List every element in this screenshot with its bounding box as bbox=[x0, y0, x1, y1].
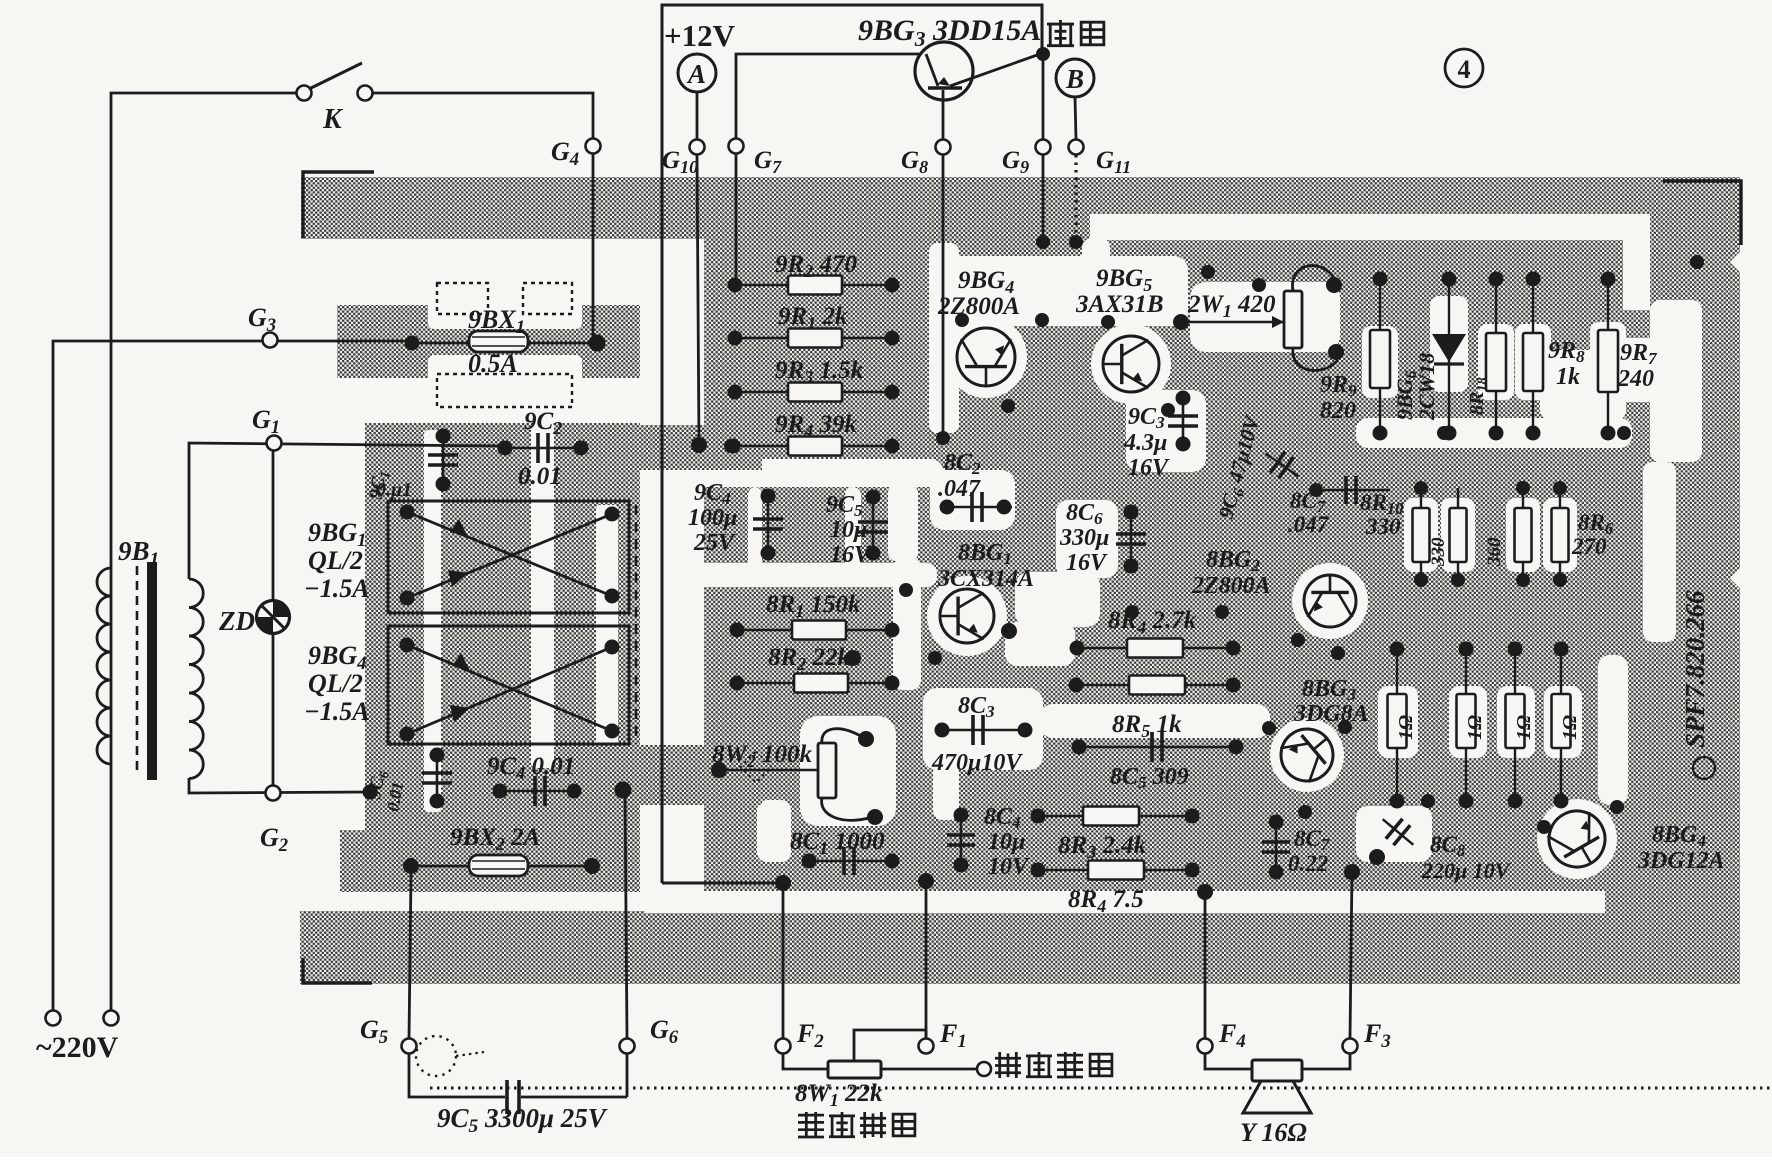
svg-text:2Z800A: 2Z800A bbox=[937, 293, 1020, 320]
label G9 bbox=[1002, 147, 1029, 177]
capacitor 8C6 330u bbox=[1116, 505, 1146, 574]
transistor 8BG4 3DG12A bbox=[1537, 800, 1624, 877]
scattered copper pads bbox=[692, 235, 1704, 819]
resistor 8R11 bbox=[1413, 481, 1430, 587]
copper region central mass bbox=[700, 239, 1740, 905]
svg-text:9BX2 2A: 9BX2 2A bbox=[450, 824, 540, 854]
terminal G6 bbox=[620, 1039, 635, 1054]
label 0.5A bbox=[468, 349, 518, 378]
svg-text:−1.5A: −1.5A bbox=[304, 697, 370, 726]
wire ZD vertical bbox=[272, 451, 275, 785]
label 8R5 1k bbox=[1112, 711, 1182, 741]
copper bridge left channel lower bbox=[630, 745, 762, 805]
terminal G8 bbox=[936, 140, 951, 155]
label F2 bbox=[796, 1019, 824, 1052]
node pad F4 riser bbox=[1197, 884, 1213, 900]
label 8BG2 2Z800A bbox=[1191, 547, 1271, 599]
label 9C2 value bbox=[518, 463, 562, 490]
figure number circled 4 bbox=[1445, 49, 1483, 87]
capacitor 8C5 row 8R5 bbox=[1072, 732, 1244, 762]
label 8C6 330u 16V bbox=[1059, 500, 1109, 576]
label F1 bbox=[939, 1019, 967, 1052]
svg-text:25V: 25V bbox=[693, 530, 736, 556]
label ZD bbox=[218, 606, 255, 636]
label 8W2 100k bbox=[712, 741, 812, 771]
wire G5 to 9C5 bbox=[409, 1054, 505, 1097]
svg-text:8W2 100k: 8W2 100k bbox=[712, 741, 812, 771]
capacitor 9C6 47u rotated bbox=[1258, 443, 1306, 487]
capacitor 8C2 .047 bbox=[940, 492, 1013, 522]
wire switch to G4 to fuse bbox=[373, 93, 593, 343]
resistor 8R16 1ohm bbox=[1457, 642, 1476, 809]
white channels bbox=[424, 214, 1752, 913]
switch K bbox=[297, 63, 373, 101]
transistor 8BG1 3CX314A bbox=[845, 589, 1017, 666]
label 8R2 22k bbox=[768, 644, 850, 674]
copper region top band bbox=[301, 177, 1740, 239]
label G11 bbox=[1096, 147, 1131, 177]
svg-text:1Ω: 1Ω bbox=[1464, 715, 1486, 740]
terminal FM input bbox=[977, 1062, 991, 1076]
svg-text:.047: .047 bbox=[938, 476, 981, 502]
svg-text:9C4 0.01: 9C4 0.01 bbox=[487, 753, 575, 783]
label 2W1 420 bbox=[1187, 291, 1276, 321]
resistor 9R3 bbox=[728, 383, 900, 402]
svg-text:4.3μ: 4.3μ bbox=[1123, 430, 1167, 456]
node junction ground rail bbox=[1036, 47, 1050, 61]
resistor 8R8b bbox=[1523, 272, 1543, 441]
wire G11 down bbox=[1074, 155, 1077, 242]
label 9R7 240 bbox=[1617, 340, 1658, 392]
relay 9BG1 box bbox=[388, 501, 629, 613]
label 8C5 309 bbox=[1110, 764, 1189, 792]
svg-text:0.22: 0.22 bbox=[1288, 851, 1328, 876]
capacitor 8C4 10u bbox=[947, 808, 975, 873]
capacitor 8C9 220u rotated bbox=[1369, 809, 1422, 865]
svg-text:A: A bbox=[686, 59, 706, 89]
label 8C3 value bbox=[931, 750, 1023, 776]
wire secondary top to G1 bbox=[189, 443, 500, 579]
wire G6 up to copper bbox=[625, 790, 627, 1038]
label 8BG3 3DG8A bbox=[1293, 676, 1369, 727]
label 9C2 bbox=[524, 408, 562, 438]
terminal F2 bbox=[776, 1039, 791, 1054]
svg-text:9R2 470: 9R2 470 bbox=[775, 251, 857, 281]
label 8C3 bbox=[958, 693, 995, 721]
wire G8 down bbox=[942, 155, 945, 438]
label 9BG4 2Z800A bbox=[937, 267, 1020, 320]
resistor 8R4c bbox=[1031, 861, 1200, 880]
label 9BX1 bbox=[468, 305, 525, 338]
resistor 9R9 820 bbox=[1370, 272, 1390, 441]
label 9R1 2k bbox=[778, 303, 848, 333]
resistor 9R7 240 bbox=[1598, 272, 1618, 441]
dashed outline above fuse left bbox=[437, 283, 488, 314]
label 1ohm b bbox=[1464, 715, 1486, 740]
label 9C4b 100u 25V bbox=[688, 480, 737, 556]
label 9BG6 rotated bbox=[1392, 370, 1420, 420]
terminal G11 bbox=[1069, 140, 1084, 155]
label 9C5b 10u 16V bbox=[826, 492, 872, 568]
capacitor 8C3 470u bbox=[935, 715, 1033, 745]
resistor 8R2 bbox=[730, 674, 900, 693]
label 8R4 2.7k bbox=[1108, 607, 1197, 637]
terminal G4 bbox=[586, 139, 601, 154]
transistor 9BG3 3DD15A bbox=[915, 42, 1040, 100]
label 8R8 rotated bbox=[1466, 377, 1491, 415]
terminal 220V left bbox=[46, 1011, 61, 1026]
label 9R3 1.5k bbox=[775, 357, 864, 387]
dotted circle at G5 bbox=[416, 1036, 484, 1076]
terminal F1 bbox=[919, 1039, 934, 1054]
wire F1 riser bbox=[918, 873, 934, 1038]
terminal G5 bbox=[402, 1039, 417, 1054]
dotted diamond near 8W2 bbox=[740, 751, 771, 782]
svg-text:9R3 1.5k: 9R3 1.5k bbox=[775, 357, 864, 387]
svg-text:220μ 10V: 220μ 10V bbox=[1421, 858, 1512, 883]
label 9B1 bbox=[118, 536, 159, 570]
transistor 9BG4 2Z800A bbox=[955, 313, 1049, 413]
copper bridge left channel upper bbox=[630, 425, 762, 470]
label SPF7.820.266 bbox=[1680, 590, 1710, 748]
resistor 8R1 bbox=[730, 621, 900, 640]
svg-text:10μ: 10μ bbox=[988, 829, 1025, 855]
label 9BG3 3DD15A bbox=[858, 14, 1041, 51]
svg-text:470μ10V: 470μ10V bbox=[931, 750, 1023, 776]
svg-text:Y 16Ω: Y 16Ω bbox=[1240, 1118, 1307, 1147]
capacitor 9C4 bbox=[493, 776, 632, 806]
terminal F3 bbox=[1343, 1039, 1358, 1054]
svg-text:9C5 3300μ 25V: 9C5 3300μ 25V bbox=[437, 1103, 608, 1137]
label 8C7 .047 bbox=[1288, 488, 1330, 537]
terminal G10 bbox=[690, 140, 705, 155]
label G8 bbox=[901, 147, 928, 177]
copper region relay block area bbox=[365, 423, 660, 830]
label 8R4 7.5 bbox=[1068, 886, 1144, 916]
label G5 bbox=[360, 1015, 388, 1048]
svg-text:9BG3 3DD15A: 9BG3 3DD15A bbox=[858, 14, 1041, 51]
wire G10 down bbox=[697, 155, 699, 444]
potentiometer 8W1 22k bbox=[783, 1030, 977, 1078]
meter terminal B bbox=[1056, 59, 1094, 97]
label 8C1 1000 bbox=[790, 828, 885, 858]
label 9C3 4.3u 16V bbox=[1123, 404, 1170, 481]
label G7 bbox=[754, 147, 782, 177]
svg-text:16V: 16V bbox=[1066, 550, 1108, 576]
transistor 8BG2 2Z800A bbox=[1291, 575, 1356, 647]
svg-text:+12V: +12V bbox=[664, 18, 736, 53]
label 8C2 .047 bbox=[938, 450, 981, 502]
pcb corner mark bottom-left bbox=[303, 958, 372, 983]
label 9R2 470 bbox=[775, 251, 857, 281]
label 9BG4 QL/2 -1.5A bbox=[304, 641, 370, 726]
capacitor 9C2 bbox=[498, 433, 589, 463]
svg-text:1Ω: 1Ω bbox=[1395, 715, 1417, 740]
capacitor 9C1 bbox=[428, 429, 458, 492]
label 9C3a bbox=[364, 768, 407, 812]
svg-text:B: B bbox=[1065, 64, 1084, 94]
label G1 bbox=[252, 405, 280, 438]
resistor 8R12 bbox=[1450, 488, 1467, 587]
potentiometer 2W1 420 bbox=[1173, 266, 1344, 371]
fuse 9BX1 bbox=[412, 331, 597, 352]
label 8R6 270 bbox=[1571, 510, 1614, 559]
label F3 bbox=[1363, 1019, 1391, 1052]
wire +12V rail rectangle bbox=[662, 5, 1042, 883]
label 8R12 rotated bbox=[1484, 537, 1505, 567]
label 8R11 rotated bbox=[1428, 537, 1449, 567]
label 1ohm c bbox=[1513, 715, 1535, 740]
wire 220V left to G3 bbox=[53, 341, 412, 1010]
label G2 bbox=[260, 823, 288, 856]
label 8R3 2.4k bbox=[1058, 832, 1147, 862]
svg-text:QL/2: QL/2 bbox=[308, 669, 363, 698]
lamp ZD bbox=[257, 601, 290, 634]
wire 220V right to switch bbox=[111, 93, 296, 1010]
label 9R8 1k bbox=[1548, 338, 1585, 390]
svg-text:10V: 10V bbox=[988, 854, 1030, 880]
label 8R1 150k bbox=[766, 591, 861, 621]
svg-text:8C5 309: 8C5 309 bbox=[1110, 764, 1189, 792]
dashed outline above fuse right bbox=[523, 283, 572, 314]
capacitor 9C3a bbox=[422, 748, 452, 809]
copper region bottom band bbox=[300, 911, 1740, 984]
label G4 bbox=[551, 137, 579, 170]
label 9R4 39k bbox=[775, 411, 857, 441]
capacitor 9C3 4.3u bbox=[1168, 391, 1198, 452]
fuse 9BX2 bbox=[403, 855, 600, 876]
label G3 bbox=[248, 303, 276, 336]
relay 9BG4 box bbox=[388, 626, 629, 744]
node pad extra row bbox=[1421, 794, 1435, 808]
label volume 音量调节 bbox=[798, 1112, 915, 1138]
relay 9BG1 cross diodes bbox=[400, 505, 620, 606]
wire 9C5 to G6 bbox=[626, 1054, 629, 1097]
resistor 9R4 bbox=[691, 437, 900, 456]
svg-text:1Ω: 1Ω bbox=[1559, 715, 1581, 740]
label 8BG4 3DG12A bbox=[1637, 822, 1725, 874]
svg-text:1k: 1k bbox=[1556, 364, 1580, 390]
svg-text:360: 360 bbox=[1484, 537, 1505, 567]
terminal F4 bbox=[1198, 1039, 1213, 1054]
wire G7 riser bbox=[736, 54, 926, 285]
label ground 接地 bbox=[1047, 20, 1104, 47]
svg-text:330: 330 bbox=[1365, 514, 1401, 539]
svg-text:1Ω: 1Ω bbox=[1513, 715, 1535, 740]
transformer 9B1 primary winding bbox=[97, 568, 111, 764]
transformer 9B1 core bbox=[137, 562, 157, 780]
terminal G9 bbox=[1036, 140, 1051, 155]
svg-text:3CX314A: 3CX314A bbox=[937, 566, 1034, 592]
wire F2 riser bbox=[775, 875, 791, 1038]
meter terminal A bbox=[678, 54, 716, 92]
resistor 8R18 1ohm bbox=[1552, 642, 1571, 809]
svg-text:8R3 2.4k: 8R3 2.4k bbox=[1058, 832, 1147, 862]
label FM input 鉴频输入 bbox=[995, 1052, 1112, 1078]
capacitor 8C7 .047 bbox=[1309, 476, 1390, 504]
svg-text:K: K bbox=[322, 104, 344, 135]
label 9BG1 QL/2 -1.5A bbox=[304, 518, 370, 603]
svg-text:4: 4 bbox=[1458, 55, 1471, 84]
svg-text:100μ: 100μ bbox=[688, 505, 737, 531]
svg-text:3DG12A: 3DG12A bbox=[1637, 848, 1725, 874]
copper region bottom-right riser bbox=[1604, 858, 1740, 918]
svg-text:2CW18: 2CW18 bbox=[1414, 353, 1439, 421]
resistor 8R4a bbox=[1070, 639, 1241, 658]
wire 9BX2 to G5 bbox=[409, 874, 411, 1038]
wire G3 line pads bbox=[405, 335, 606, 352]
transistor 8BG3 3DG8A bbox=[1262, 718, 1352, 791]
label 8BG1 3CX314A bbox=[937, 540, 1034, 592]
label G10 bbox=[662, 147, 698, 177]
dashed outline below fuse bbox=[437, 374, 572, 407]
copper region fuse 9BX1 area bbox=[337, 305, 655, 378]
svg-text:8R2 22k: 8R2 22k bbox=[768, 644, 850, 674]
svg-text:0.μ1: 0.μ1 bbox=[376, 479, 412, 501]
wire A to G10 bbox=[696, 92, 699, 139]
svg-text:3AX31B: 3AX31B bbox=[1075, 291, 1164, 318]
label 1ohm a bbox=[1395, 715, 1417, 740]
label 8R10 330 bbox=[1360, 490, 1403, 539]
resistor 8R4b bbox=[1069, 676, 1241, 695]
capacitor 9C5b 10u bbox=[858, 490, 888, 561]
resistor 8R17 1ohm bbox=[1506, 642, 1525, 809]
label 8C9 220u 10V bbox=[1421, 832, 1512, 883]
resistor 8R8a bbox=[1486, 272, 1506, 441]
svg-text:~220V: ~220V bbox=[36, 1031, 119, 1064]
transistor 9BG5 3AX31B bbox=[1101, 315, 1175, 417]
label 2CW18 rotated bbox=[1414, 353, 1439, 421]
svg-text:330μ: 330μ bbox=[1059, 525, 1109, 551]
svg-text:8R4 2.7k: 8R4 2.7k bbox=[1108, 607, 1197, 637]
svg-text:−1.5A: −1.5A bbox=[304, 574, 370, 603]
svg-text:2W1 420: 2W1 420 bbox=[1187, 291, 1276, 321]
terminal 220V right bbox=[104, 1011, 119, 1026]
label 9C4 0.01 bbox=[487, 753, 575, 783]
label 8C4 10u 10V bbox=[984, 804, 1030, 880]
svg-text:ZD: ZD bbox=[218, 606, 255, 636]
svg-text:8W1 22k: 8W1 22k bbox=[795, 1080, 883, 1110]
terminal G7 bbox=[729, 139, 744, 154]
wire F3 riser bbox=[1344, 864, 1360, 1038]
capacitor 8C1 1000 bbox=[802, 847, 900, 875]
capacitor 9C4b 100u bbox=[753, 489, 783, 561]
circled mark bottom of SPF bbox=[1693, 757, 1715, 779]
dotted signal line bbox=[430, 1087, 1772, 1090]
copper region right column bbox=[1674, 193, 1740, 984]
label +12V bbox=[664, 18, 736, 53]
label G6 bbox=[650, 1015, 679, 1048]
terminal G1 bbox=[267, 436, 282, 451]
label 9C6 47u 10V rotated bbox=[1214, 412, 1268, 522]
wire B to G11 bbox=[1075, 97, 1076, 139]
speaker Y bbox=[1205, 1054, 1350, 1113]
wire G9 down bbox=[1042, 155, 1045, 242]
wire F4 riser bbox=[1204, 892, 1207, 1038]
potentiometer 8W2 100k bbox=[711, 729, 883, 825]
svg-text:3DG8A: 3DG8A bbox=[1293, 701, 1369, 727]
capacitor 8C8 0.22 bbox=[1262, 815, 1290, 880]
svg-text:16V: 16V bbox=[1128, 455, 1170, 481]
relay dashed border right bbox=[635, 505, 638, 744]
svg-text:8R1 150k: 8R1 150k bbox=[766, 591, 861, 621]
svg-text:SPF7.820.266: SPF7.820.266 bbox=[1680, 590, 1710, 748]
zener diode 9BG6 2CW18 bbox=[1432, 272, 1466, 441]
svg-text:240: 240 bbox=[1617, 366, 1654, 392]
svg-text:8C1 1000: 8C1 1000 bbox=[790, 828, 885, 858]
svg-text:.047: .047 bbox=[1288, 512, 1330, 537]
capacitor 9C5 3300u bbox=[507, 1080, 627, 1114]
svg-text:0.01: 0.01 bbox=[518, 463, 562, 490]
relay 9BG4 cross diodes bbox=[400, 638, 620, 742]
svg-text:9R4 39k: 9R4 39k bbox=[775, 411, 857, 441]
label 9C1 0.1u bbox=[365, 469, 412, 502]
terminal G3 bbox=[263, 333, 278, 348]
svg-text:10μ: 10μ bbox=[830, 517, 867, 543]
resistor 9R1 bbox=[728, 329, 900, 348]
resistor 8R15 1ohm bbox=[1388, 642, 1407, 809]
label F4 bbox=[1218, 1019, 1246, 1052]
label 1ohm d bbox=[1559, 715, 1581, 740]
svg-text:330: 330 bbox=[1428, 537, 1449, 567]
label 9R9 820 bbox=[1320, 372, 1357, 424]
transformer 9B1 secondary winding bbox=[189, 579, 203, 779]
label K bbox=[322, 104, 344, 135]
node G2 entry pad bbox=[363, 785, 378, 800]
pcb corner mark top-right bbox=[1663, 181, 1741, 245]
label speaker Y 16ohm bbox=[1240, 1118, 1307, 1147]
resistor 8R3 bbox=[1031, 807, 1200, 826]
svg-text:820: 820 bbox=[1320, 398, 1356, 424]
resistor 8R14 bbox=[1552, 481, 1569, 587]
label 9C5 3300u 25V bbox=[437, 1103, 608, 1137]
svg-text:2Z800A: 2Z800A bbox=[1191, 573, 1271, 599]
svg-text:QL/2: QL/2 bbox=[308, 546, 363, 575]
resistor 9R2 bbox=[728, 276, 900, 295]
label 8W1 22k bbox=[795, 1080, 883, 1110]
wire secondary bottom to G2 bbox=[189, 778, 370, 793]
wire ground rail to G9 bbox=[1042, 54, 1045, 139]
label ~220V bbox=[36, 1031, 119, 1064]
svg-text:8R4 7.5: 8R4 7.5 bbox=[1068, 886, 1144, 916]
svg-text:16V: 16V bbox=[830, 542, 872, 568]
label 8C8 0.22 bbox=[1288, 826, 1330, 876]
wire rail bottom to F2 pad bbox=[662, 882, 783, 885]
pcb corner mark top-left bbox=[303, 172, 374, 238]
label 9BG5 3AX31B bbox=[1075, 265, 1164, 318]
resistor 8R13 bbox=[1515, 481, 1532, 587]
copper region fuse 9BX2 area bbox=[340, 830, 660, 892]
terminal G2 bbox=[266, 786, 281, 801]
label 9BX2 2A bbox=[450, 824, 540, 854]
wire 9BG3 emitter to G8 bbox=[942, 90, 945, 139]
svg-text:270: 270 bbox=[1571, 534, 1607, 559]
